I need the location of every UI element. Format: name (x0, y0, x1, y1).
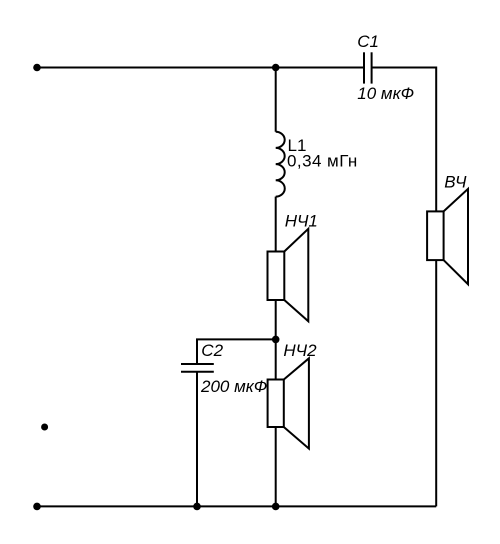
wire: НЧ1 to node B and on to НЧ2 (275, 300, 277, 380)
svg-text:C2: C2 (201, 341, 223, 360)
svg-text:10 мкФ: 10 мкФ (357, 84, 414, 103)
speaker НЧ1 (woofer 1) (268, 229, 309, 321)
terminal dot: middle-left (41, 424, 48, 431)
inductor L1 (276, 132, 285, 197)
node A junction dot (272, 64, 280, 72)
svg-text:ВЧ: ВЧ (444, 172, 467, 191)
junction dot: C2 / bottom wire (193, 503, 201, 511)
wire: L1 to speaker НЧ1 (275, 197, 277, 252)
wire: node A to capacitor C1 left plate (276, 67, 364, 69)
svg-text:НЧ2: НЧ2 (283, 341, 317, 360)
junction dot: НЧ2 branch / bottom wire (272, 503, 280, 511)
terminal dot: top-left input (33, 64, 41, 72)
terminal dot: bottom-left (33, 503, 41, 511)
wire: speaker ВЧ to bottom-right corner (435, 260, 437, 506)
svg-text:C1: C1 (357, 32, 379, 51)
capacitor C2 (181, 364, 214, 372)
speaker НЧ2 (woofer 2) (268, 358, 309, 448)
wire: C1 right plate to top-right corner, down to speaker ВЧ (372, 68, 437, 212)
speaker ВЧ (tweeter) (427, 189, 468, 284)
wire: bottom return (37, 505, 436, 507)
wire: НЧ2 to bottom return wire (275, 427, 277, 506)
capacitor C1 (364, 52, 372, 83)
svg-text:200 мкФ: 200 мкФ (200, 377, 267, 396)
node B junction dot (272, 336, 280, 344)
svg-text:НЧ1: НЧ1 (285, 212, 318, 231)
wire: C2 to bottom return wire (196, 372, 198, 507)
wire: node A down to inductor L1 (275, 68, 277, 132)
svg-text:0,34 мГн: 0,34 мГн (287, 151, 358, 170)
wire: top input from left terminal to node A (37, 67, 276, 69)
wire: node B to capacitor C2 branch (197, 339, 276, 363)
